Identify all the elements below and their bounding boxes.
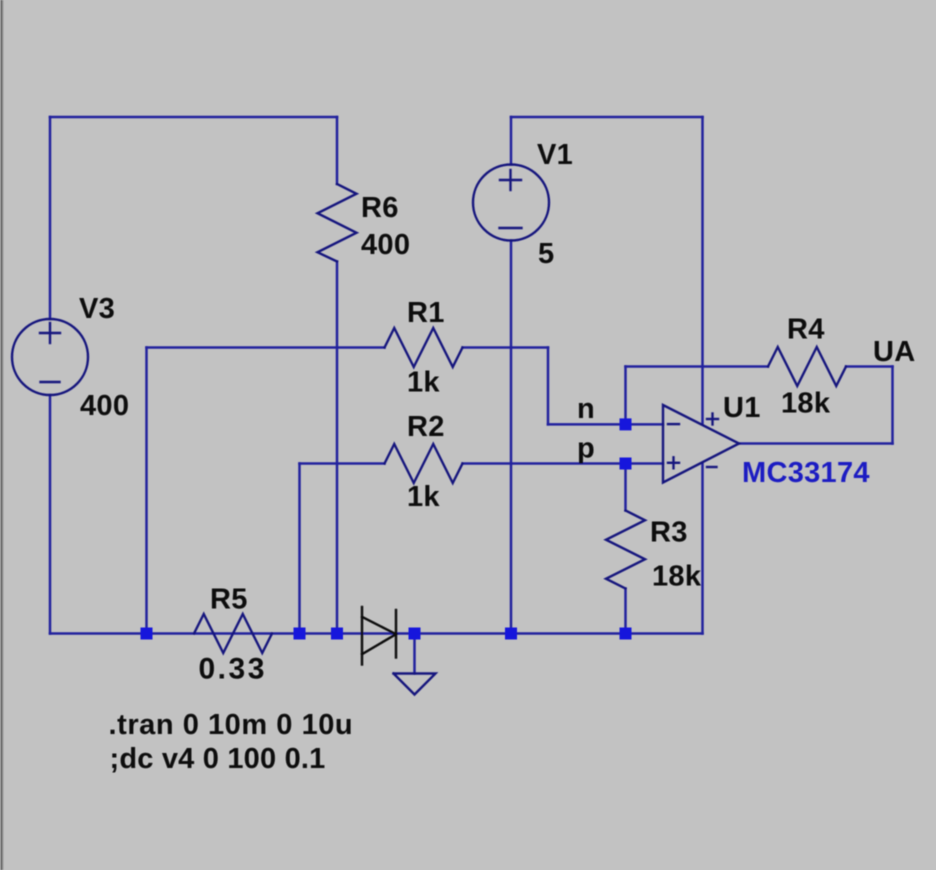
svg-text:;dc v4 0 100 0.1: ;dc v4 0 100 0.1 (110, 743, 326, 775)
junction R3-bottom (620, 628, 632, 640)
wire output right vertical (891, 367, 894, 444)
junction ground node (409, 628, 421, 640)
resistor R1 (385, 328, 463, 367)
wire right rail upper (701, 117, 704, 424)
resistor R4 (768, 347, 846, 386)
op-amp non-inverting input mark (668, 462, 679, 464)
op-amp inverting input mark (668, 423, 679, 425)
svg-text:n: n (577, 393, 595, 425)
wire op-amp output (739, 442, 893, 445)
wire top-left horizontal (50, 116, 337, 119)
op-amp V- power mark (707, 466, 717, 468)
wire V3 bottom lead (49, 395, 52, 634)
voltage source V1 (473, 165, 549, 241)
wire node n to op-amp (548, 423, 663, 426)
wire R3 bottom lead (624, 589, 627, 634)
resistor R2 (385, 444, 463, 483)
junction node n (620, 418, 632, 430)
wire ground stem (413, 634, 416, 674)
resistor R5 (194, 614, 272, 653)
svg-text:0.33: 0.33 (199, 653, 267, 686)
svg-text:R3: R3 (650, 516, 688, 548)
svg-text:R6: R6 (361, 192, 399, 224)
svg-text:18k: 18k (781, 388, 831, 420)
resistor R6 (318, 184, 357, 262)
wire R1 left vertical (145, 348, 148, 634)
window left border (1, 0, 3, 870)
junction V1-bottom (505, 628, 517, 640)
svg-text:5: 5 (538, 238, 554, 270)
wire R3 top lead (624, 464, 627, 511)
svg-text:18k: 18k (652, 560, 702, 592)
svg-text:400: 400 (80, 390, 129, 422)
voltage source V3 (12, 319, 88, 395)
op-amp U1 triangle (663, 405, 739, 483)
wire right rail lower (701, 463, 704, 633)
junction R2-bottom (294, 628, 306, 640)
wire R6 bottom lead (336, 262, 339, 634)
junction R1-bottom (141, 628, 153, 640)
wire R6 top lead (336, 117, 339, 184)
ground symbol (394, 674, 436, 695)
wire bottom rail (50, 632, 703, 635)
svg-text:R5: R5 (210, 584, 248, 616)
svg-text:400: 400 (361, 229, 410, 261)
svg-text:.tran 0 10m 0 10u: .tran 0 10m 0 10u (109, 709, 354, 741)
svg-text:UA: UA (873, 336, 916, 368)
wire V3 top lead (49, 117, 52, 319)
svg-text:R1: R1 (407, 297, 445, 329)
wire R1 to node n vertical (547, 348, 550, 425)
wire R1 left lead (147, 346, 385, 349)
wire R2 left lead (300, 462, 385, 465)
op-amp V+ power mark (707, 418, 718, 420)
svg-text:U1: U1 (723, 392, 761, 424)
svg-text:R2: R2 (407, 411, 445, 443)
svg-text:V1: V1 (537, 139, 573, 171)
svg-text:p: p (577, 433, 595, 465)
resistor R3 (606, 511, 645, 589)
svg-text:1k: 1k (407, 481, 440, 513)
wire R2 right lead to op-amp (463, 462, 664, 465)
svg-text:R4: R4 (787, 313, 825, 345)
svg-text:V3: V3 (79, 293, 115, 325)
wire V1 top lead (510, 117, 513, 165)
wire R1 right lead (463, 346, 549, 349)
wire top-right horizontal (511, 116, 703, 119)
wire R2 left vertical (298, 464, 301, 634)
wire R4 left lead (626, 365, 769, 368)
diode D1 (362, 607, 396, 665)
junction node p (620, 458, 632, 470)
wire R4 right lead (846, 365, 893, 368)
svg-text:1k: 1k (407, 367, 440, 399)
wire V1 bottom lead (510, 241, 513, 634)
junction R6-bottom (331, 628, 343, 640)
svg-text:MC33174: MC33174 (742, 457, 870, 489)
wire feedback vertical at n (624, 367, 627, 425)
